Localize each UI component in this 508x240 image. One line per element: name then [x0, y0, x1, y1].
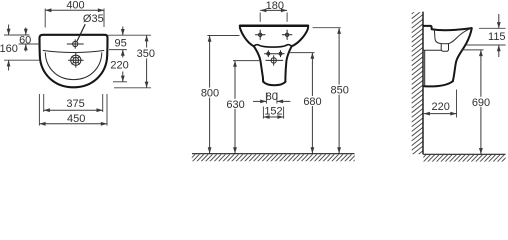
- tap hole mark right: [282, 30, 292, 39]
- reference line 850: [313, 27, 341, 29]
- dimension 400 line: [45, 9, 104, 11]
- dimension 180 line: [260, 9, 287, 11]
- dimension 680 line: [311, 53, 313, 154]
- drain inner circle: [73, 57, 79, 63]
- dimension 690 line: [480, 50, 482, 154]
- basin underside back line: [423, 49, 441, 51]
- svg-text:690: 690: [472, 97, 490, 109]
- basin plan outer outline: [40, 35, 108, 88]
- reference line outer front right: [114, 87, 151, 89]
- trap hole circle: [271, 58, 276, 63]
- svg-text:680: 680: [303, 96, 321, 108]
- semi-pedestal left edge: [254, 46, 263, 81]
- svg-text:95: 95: [114, 37, 126, 49]
- dimension 115 arrows: [498, 14, 500, 28]
- reference line 630: [233, 60, 260, 62]
- fixing hole right: [279, 51, 282, 57]
- drain box section: [441, 44, 448, 52]
- svg-text:400: 400: [66, 0, 84, 12]
- dimension 450 extension lines: [38, 94, 40, 126]
- svg-text:220: 220: [432, 101, 450, 113]
- reference line 115 top: [479, 27, 506, 29]
- basin plan bowl back edge: [43, 51, 104, 53]
- fixing hole left: [267, 51, 270, 57]
- dimension 160: [8, 25, 10, 36]
- svg-text:800: 800: [201, 88, 219, 100]
- pedestal bottom side view: [424, 81, 453, 86]
- dimension 80 arrows: [253, 100, 266, 102]
- svg-text:450: 450: [67, 113, 85, 125]
- basin plan bowl front curve: [45, 53, 102, 80]
- svg-text:220: 220: [110, 60, 128, 72]
- dimension 400 extension lines: [44, 9, 46, 28]
- basin side front face and pedestal front: [453, 28, 472, 81]
- reference line 800: [207, 35, 239, 37]
- svg-text:630: 630: [226, 99, 244, 111]
- svg-text:152: 152: [264, 106, 282, 118]
- basin front underside center with shoulders: [254, 45, 292, 47]
- bowl interior section: [434, 29, 470, 44]
- dimension 152 line: [263, 116, 283, 118]
- basin front rim bar: [240, 24, 308, 27]
- reference line drain center left: [4, 59, 40, 61]
- dimension 220 line: [424, 113, 457, 115]
- reference line 680: [290, 52, 315, 54]
- trap hole crosshair: [266, 59, 283, 61]
- basin front underside left arc: [240, 27, 254, 46]
- dimension 95: [122, 27, 124, 36]
- reference line top edge left: [4, 34, 30, 36]
- wall hatch: [412, 5, 423, 160]
- tap hole crosshair vertical: [74, 40, 76, 49]
- svg-text:850: 850: [331, 85, 349, 97]
- dimension 220 extension line: [456, 90, 458, 118]
- dimension 375 extension lines: [43, 94, 45, 112]
- dimension 850 line: [338, 28, 340, 154]
- dimension 450 line: [39, 123, 107, 125]
- dimension 375 line: [44, 109, 103, 111]
- dimension 80 extension lines: [265, 93, 267, 104]
- reference line 95 right: [109, 49, 127, 51]
- svg-text:Ø35: Ø35: [83, 13, 104, 25]
- ground hatch side view: [419, 155, 508, 162]
- drain diagonal ticks: [72, 56, 80, 64]
- basin front underside right arc: [292, 27, 309, 46]
- reference line bowl front right: [113, 81, 127, 83]
- dimension 152 extension lines: [262, 107, 264, 119]
- wall line: [422, 12, 424, 155]
- drain outer circle: [71, 55, 81, 65]
- tap hole circle: [73, 41, 78, 46]
- reference line 690 top: [461, 49, 484, 51]
- reference line top edge right: [108, 34, 151, 36]
- tap hole crosshair horizontal: [67, 43, 83, 45]
- dimension 350: [146, 35, 148, 47]
- semi-pedestal bottom arc: [263, 82, 285, 86]
- ground line front view: [192, 153, 355, 155]
- pedestal back edge side view: [424, 51, 426, 87]
- ground line side view: [423, 153, 505, 155]
- svg-text:375: 375: [66, 98, 84, 110]
- drain crosshair horizontal: [69, 59, 84, 61]
- svg-text:115: 115: [488, 31, 506, 43]
- fixing holes line: [265, 53, 285, 55]
- dimension 180 extension lines: [259, 13, 261, 22]
- basin side profile top and back ledge: [423, 26, 471, 30]
- svg-text:350: 350: [137, 48, 155, 60]
- svg-text:80: 80: [266, 91, 278, 103]
- dimension 60: [25, 28, 27, 36]
- svg-text:160: 160: [0, 43, 18, 55]
- semi-pedestal right edge: [285, 46, 291, 82]
- dimension 630 line: [234, 61, 236, 154]
- reference line 115 bottom: [466, 44, 506, 46]
- reference line tap center left: [19, 43, 40, 45]
- svg-text:60: 60: [19, 34, 31, 46]
- dimension 220 plan: [122, 72, 124, 82]
- leader line to tap hole: [77, 24, 85, 41]
- dimension 800 line: [209, 36, 211, 154]
- drain crosshair vertical: [75, 53, 77, 67]
- svg-text:180: 180: [266, 0, 284, 12]
- tap hole mark left: [255, 30, 265, 39]
- ground hatch front view: [188, 154, 361, 161]
